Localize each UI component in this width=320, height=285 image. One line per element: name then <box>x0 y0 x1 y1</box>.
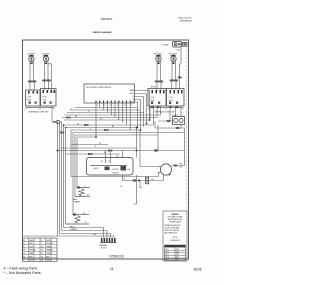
connector oval light feed 1 <box>166 120 170 122</box>
wire drops from right switch boxes <box>150 106 181 125</box>
connector oval motor right <box>173 164 177 166</box>
wire leads into left switch boxes <box>30 82 49 91</box>
wire color code table <box>23 238 58 262</box>
wire eoc right outputs <box>135 91 150 131</box>
junction dot mid run left <box>57 150 59 152</box>
wire oven light feeds <box>155 121 185 133</box>
surface switch RF box <box>148 89 166 107</box>
wire under module box to motor <box>71 173 158 177</box>
svg-text:36/05: 36/05 <box>194 267 202 271</box>
wire run y154 <box>66 153 121 155</box>
bracket surface unit switches left <box>26 108 54 110</box>
wire bus labels <box>70 109 119 131</box>
connector oval fuse run <box>132 179 136 181</box>
svg-text:5995384004: 5995384004 <box>180 20 193 22</box>
lamp switch box top right <box>177 43 188 52</box>
bracket surface unit switches right <box>149 108 183 110</box>
wire motor return <box>163 175 165 181</box>
wire LF unit leads <box>30 61 34 80</box>
svg-text:17030123: 17030123 <box>109 255 124 259</box>
electronic oven control box <box>84 84 135 103</box>
connector pair run y150 <box>108 150 112 152</box>
warning notes box <box>163 211 187 261</box>
inline connector pair 3 <box>104 129 108 131</box>
chassis dashed line inner right <box>186 42 188 211</box>
oven control connector pins <box>96 101 132 107</box>
surface switch RR box <box>167 89 185 107</box>
bake element label <box>73 198 80 204</box>
wire RF unit leads <box>157 61 161 80</box>
wire motor right lead <box>172 151 185 166</box>
inline connector pair 0 <box>60 132 64 134</box>
broil element <box>66 213 90 224</box>
wire mid horizontal run <box>58 150 185 152</box>
convection fan motor <box>158 164 171 176</box>
connector oval mid run <box>154 149 158 151</box>
connector ovals left cluster <box>28 79 51 82</box>
wire module drop with hook <box>134 175 137 204</box>
center wiring bus horizontal runs <box>62 108 185 138</box>
inline connector pair 2 <box>84 124 88 126</box>
broil element label <box>70 226 77 231</box>
wire lamp drop <box>180 47 182 77</box>
wire eoc bottom pin drops <box>96 103 130 137</box>
surface unit LF label <box>27 53 35 57</box>
oven light assembly <box>173 117 185 125</box>
connector dashes below right boxes <box>151 106 177 107</box>
wire motor feed top <box>140 166 158 168</box>
svg-text:ELECTRONIC OVEN CONTROL: ELECTRONIC OVEN CONTROL <box>87 87 112 89</box>
bake element <box>75 186 90 196</box>
surface unit RF label <box>154 53 163 57</box>
svg-text:# – Field-wiring Parts: # – Field-wiring Parts <box>4 267 38 271</box>
junction dot mid <box>136 150 138 152</box>
surface switch LF box <box>26 90 41 106</box>
terminal block label <box>99 244 107 250</box>
wire run y148 <box>62 147 137 149</box>
wire right side descenders <box>137 121 185 167</box>
surface unit RR <box>171 55 176 64</box>
sensor resistance table <box>165 245 186 261</box>
wire run y144 <box>71 144 108 146</box>
wire leads into right switch boxes <box>157 79 180 91</box>
page border frame <box>23 40 189 259</box>
junction dot fuse run <box>138 180 140 182</box>
wire from LF switch to junction <box>52 106 62 122</box>
surface unit RR label <box>169 53 178 57</box>
terminal block <box>100 238 117 243</box>
wire fuse run <box>123 175 164 181</box>
svg-text:* – Not-Illustrated Parts: * – Not-Illustrated Parts <box>4 271 41 275</box>
surface unit LF <box>29 55 34 64</box>
surface switch LR box <box>41 89 57 107</box>
junction connector circle <box>56 120 59 123</box>
oven light assembly top right <box>173 42 182 48</box>
wire LR unit leads <box>45 61 52 90</box>
left harness bundle verticals <box>58 122 78 236</box>
surface unit LR <box>43 55 48 64</box>
junction dots center bus <box>63 119 151 138</box>
wire stub below fuse line <box>140 181 142 188</box>
connector oval light feed 2 <box>175 127 179 129</box>
bottom feeder wires to terminal block <box>24 228 114 238</box>
convection fan motor label <box>180 162 183 168</box>
svg-text:11: 11 <box>110 267 114 271</box>
surface unit LR label <box>42 53 51 57</box>
surface unit RF <box>156 55 161 64</box>
bake element lead labels <box>85 186 89 196</box>
inline connector pair 1 <box>66 117 70 119</box>
svg-text:P LIGHT: P LIGHT <box>162 45 170 47</box>
wire RR unit leads <box>172 61 176 79</box>
broil element lead labels <box>83 213 87 224</box>
connector ovals right cluster <box>155 76 182 82</box>
connector pair run y154 <box>88 153 92 155</box>
thermal fuse <box>146 177 155 184</box>
module control board box <box>87 151 134 176</box>
